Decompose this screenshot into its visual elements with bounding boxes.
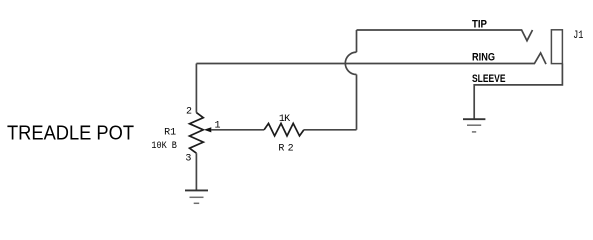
svg-text:2: 2 <box>186 106 192 117</box>
svg-text:1: 1 <box>215 121 221 132</box>
svg-text:TREADLE POT: TREADLE POT <box>7 122 134 144</box>
svg-text:R2: R2 <box>278 144 293 155</box>
svg-text:R1: R1 <box>164 128 176 139</box>
svg-text:3: 3 <box>185 153 191 164</box>
svg-text:J1: J1 <box>573 29 583 41</box>
svg-text:10K B: 10K B <box>151 139 177 151</box>
svg-text:SLEEVE: SLEEVE <box>472 73 506 85</box>
svg-text:RING: RING <box>472 51 495 63</box>
svg-text:1K: 1K <box>279 114 290 125</box>
svg-text:TIP: TIP <box>472 19 487 31</box>
